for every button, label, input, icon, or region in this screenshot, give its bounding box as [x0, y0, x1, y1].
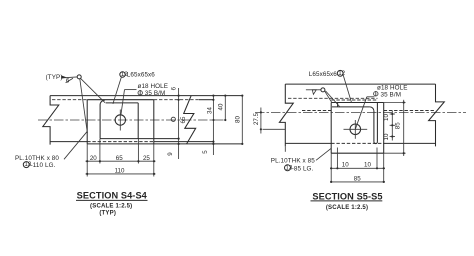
- svg-text:65: 65: [180, 116, 187, 123]
- svg-text:PL.10THK x 85: PL.10THK x 85: [271, 158, 315, 165]
- svg-text:10: 10: [342, 161, 349, 168]
- svg-text:L65x65x6: L65x65x6: [309, 71, 338, 78]
- svg-text:6: 6: [170, 86, 177, 90]
- svg-text:35 B/M: 35 B/M: [145, 90, 166, 97]
- svg-text:10: 10: [383, 133, 390, 140]
- svg-text:25: 25: [143, 155, 150, 162]
- svg-text:85: 85: [354, 175, 361, 182]
- svg-text:SECTION S4-S4: SECTION S4-S4: [77, 190, 148, 200]
- svg-text:-110 LG.: -110 LG.: [31, 162, 56, 169]
- svg-text:34: 34: [206, 107, 213, 114]
- svg-text:(TYP): (TYP): [46, 74, 63, 81]
- svg-text:65: 65: [116, 155, 123, 162]
- svg-text:35 B/M: 35 B/M: [381, 91, 402, 98]
- svg-text:9: 9: [167, 152, 174, 156]
- svg-text:PL.10THK x 80: PL.10THK x 80: [15, 155, 59, 162]
- svg-text:SECTION S5-S5: SECTION S5-S5: [312, 192, 382, 202]
- svg-text:10: 10: [364, 161, 371, 168]
- svg-text:27.5: 27.5: [253, 112, 260, 125]
- svg-text:-85 LG.: -85 LG.: [292, 165, 314, 172]
- svg-text:(SCALE 1:2.5): (SCALE 1:2.5): [326, 205, 368, 211]
- svg-text:10: 10: [383, 114, 390, 121]
- svg-text:(TYP): (TYP): [99, 211, 116, 217]
- svg-text:80: 80: [235, 116, 242, 123]
- svg-text:(SCALE 1:2.5): (SCALE 1:2.5): [90, 203, 132, 209]
- svg-text:110: 110: [115, 167, 125, 174]
- svg-text:85: 85: [395, 122, 402, 129]
- svg-text:12: 12: [338, 70, 345, 77]
- svg-text:40: 40: [217, 103, 224, 110]
- svg-text:L65x65x6: L65x65x6: [127, 71, 156, 78]
- svg-text:6: 6: [66, 77, 70, 84]
- svg-text:20: 20: [90, 155, 97, 162]
- svg-text:5: 5: [202, 150, 209, 154]
